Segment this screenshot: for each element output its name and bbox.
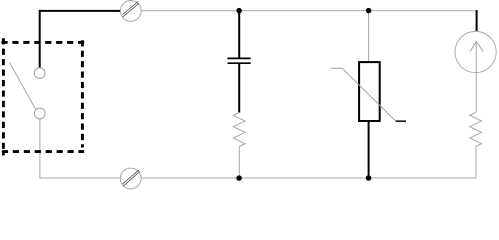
junction: top rail dot at varistor branch <box>366 8 372 14</box>
wire: black wire from top-right corner down to current source <box>476 10 478 31</box>
switch: top contact circle <box>34 68 45 79</box>
varistor: rectangle body <box>359 62 380 121</box>
capacitor: top plate <box>228 57 251 59</box>
wire: capacitor branch black wire from top rail to capacitor <box>238 11 240 59</box>
wire: black wire from varistor to bottom rail <box>368 121 370 178</box>
resistor: right zigzag resistor <box>470 113 482 147</box>
wire: bottom rail gray from bottom terminal to bottom-right corner <box>141 177 476 179</box>
capacitor: bottom plate <box>228 62 251 64</box>
enclosure: dashed box right edge <box>81 40 84 147</box>
enclosure: dashed box bottom edge <box>2 150 84 153</box>
varistor: dark bottom-right tail <box>396 120 406 122</box>
junction: bottom rail dot at varistor branch <box>366 175 372 181</box>
wire: gray wire from top rail to varistor <box>368 11 370 62</box>
varistor: gray diagonal with top-left tail <box>331 68 396 121</box>
terminal: top connector slash 1 <box>123 3 139 17</box>
terminal: top connector slash 2 <box>123 1 139 14</box>
wire: black wire from capacitor to left resistor <box>238 63 240 112</box>
wire: bottom-left gray wire from switch down and right to bottom terminal <box>40 119 120 178</box>
terminal: bottom connector slash 1 <box>123 172 139 187</box>
terminal: bottom connector circle <box>120 168 141 189</box>
enclosure: dashed box around switch, top edge <box>1 41 84 44</box>
current source: arrow shaft (continues as wire below circle) <box>475 41 477 112</box>
junction: top rail dot at capacitor branch <box>236 8 242 14</box>
current source: arrowhead left stroke <box>470 41 476 51</box>
current source: circle <box>455 31 496 72</box>
terminal: top connector circle <box>120 1 141 22</box>
wire: top-left black wire from switch up and right to top terminal <box>40 11 121 68</box>
resistor: left zigzag resistor <box>233 113 245 147</box>
wire: gray wire from left resistor to bottom rail <box>238 147 240 179</box>
wire: gray wire from right resistor to bottom rail <box>475 147 477 179</box>
wire: top rail gray from top terminal to top-right corner <box>141 10 477 12</box>
switch: blade (gray diagonal lever) <box>9 62 36 109</box>
junction: bottom rail dot at capacitor branch <box>236 175 242 181</box>
current source: arrowhead right stroke <box>476 41 483 51</box>
enclosure: dashed box left edge <box>2 38 5 155</box>
terminal: bottom connector slash 2 <box>123 170 139 184</box>
switch: bottom contact circle <box>34 108 45 119</box>
